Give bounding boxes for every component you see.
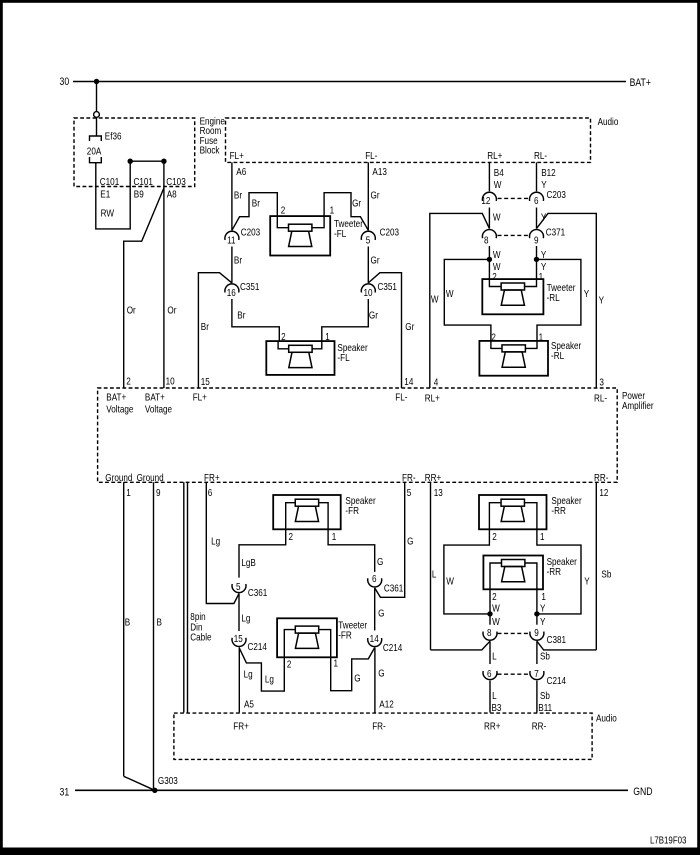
svg-text:8: 8 xyxy=(484,234,489,245)
svg-text:-RR: -RR xyxy=(547,566,562,577)
svg-text:FR+: FR+ xyxy=(233,720,249,731)
svg-text:Y: Y xyxy=(584,576,589,587)
svg-text:2: 2 xyxy=(492,271,497,282)
svg-text:Lg: Lg xyxy=(241,613,250,624)
svg-text:C371: C371 xyxy=(546,227,565,238)
svg-text:W: W xyxy=(493,249,501,260)
svg-text:B: B xyxy=(157,617,162,628)
svg-text:9: 9 xyxy=(534,627,539,638)
svg-text:1: 1 xyxy=(330,205,335,216)
svg-text:BAT+: BAT+ xyxy=(145,392,165,403)
svg-text:Y: Y xyxy=(540,616,545,627)
svg-text:L: L xyxy=(492,690,497,701)
svg-text:Br: Br xyxy=(252,198,260,209)
svg-text:1: 1 xyxy=(540,531,545,542)
svg-text:W: W xyxy=(431,294,439,305)
svg-text:RL+: RL+ xyxy=(487,150,502,161)
svg-text:1: 1 xyxy=(332,531,337,542)
svg-text:16: 16 xyxy=(227,287,236,298)
svg-text:W: W xyxy=(446,576,454,587)
svg-text:15: 15 xyxy=(234,633,243,644)
svg-text:Gr: Gr xyxy=(371,190,380,201)
svg-text:6: 6 xyxy=(208,487,213,498)
svg-text:Y: Y xyxy=(584,288,589,299)
svg-text:Audio: Audio xyxy=(596,713,617,724)
svg-text:Voltage: Voltage xyxy=(145,403,172,414)
svg-text:14: 14 xyxy=(370,633,379,644)
svg-text:LgB: LgB xyxy=(241,557,255,568)
svg-text:15: 15 xyxy=(201,376,210,387)
svg-text:-RL: -RL xyxy=(551,350,564,361)
svg-text:FR-: FR- xyxy=(402,472,416,483)
svg-text:2: 2 xyxy=(281,205,286,216)
svg-text:2: 2 xyxy=(492,531,497,542)
svg-text:BAT+: BAT+ xyxy=(630,77,652,89)
svg-text:B3: B3 xyxy=(492,702,502,713)
svg-text:L: L xyxy=(432,569,437,580)
svg-text:4: 4 xyxy=(434,377,439,388)
svg-text:C101: C101 xyxy=(134,176,153,187)
svg-text:C101: C101 xyxy=(100,176,119,187)
svg-text:Gr: Gr xyxy=(352,198,361,209)
svg-text:Voltage: Voltage xyxy=(106,403,133,414)
svg-text:C203: C203 xyxy=(547,189,566,200)
svg-text:31: 31 xyxy=(60,787,70,799)
svg-text:Sb: Sb xyxy=(540,690,550,701)
svg-text:FL-: FL- xyxy=(365,150,377,161)
svg-text:C203: C203 xyxy=(241,227,260,238)
svg-text:Y: Y xyxy=(541,249,546,260)
svg-text:Y: Y xyxy=(540,603,545,614)
svg-text:6: 6 xyxy=(487,668,492,679)
svg-text:W: W xyxy=(492,603,500,614)
svg-text:20A: 20A xyxy=(87,146,102,157)
svg-text:RR+: RR+ xyxy=(484,720,500,731)
svg-text:RL-: RL- xyxy=(534,150,547,161)
svg-text:2: 2 xyxy=(289,531,294,542)
svg-text:C214: C214 xyxy=(248,641,267,652)
svg-text:RR+: RR+ xyxy=(425,472,441,483)
svg-text:2: 2 xyxy=(287,659,292,670)
svg-text:Y: Y xyxy=(599,295,604,306)
svg-text:Ef36: Ef36 xyxy=(105,131,122,142)
svg-text:A12: A12 xyxy=(379,699,393,710)
svg-text:G: G xyxy=(378,668,384,679)
svg-text:9: 9 xyxy=(156,487,161,498)
svg-text:5: 5 xyxy=(236,581,241,592)
svg-text:FR-: FR- xyxy=(372,720,386,731)
svg-text:G: G xyxy=(407,536,413,547)
svg-text:RR-: RR- xyxy=(594,472,608,483)
svg-text:Lg: Lg xyxy=(244,669,253,680)
svg-text:Gr: Gr xyxy=(405,321,414,332)
svg-text:Cable: Cable xyxy=(190,632,211,643)
svg-text:W: W xyxy=(492,616,500,627)
svg-text:C203: C203 xyxy=(380,227,399,238)
svg-text:C214: C214 xyxy=(383,642,402,653)
svg-text:BAT+: BAT+ xyxy=(106,392,126,403)
svg-text:10: 10 xyxy=(166,376,175,387)
svg-text:L: L xyxy=(492,651,497,662)
svg-text:Ground: Ground xyxy=(105,472,132,483)
svg-text:Br: Br xyxy=(237,310,245,321)
svg-text:A8: A8 xyxy=(167,189,177,200)
svg-text:RL+: RL+ xyxy=(425,393,440,404)
svg-text:12: 12 xyxy=(599,487,608,498)
svg-text:A5: A5 xyxy=(244,699,254,710)
svg-text:W: W xyxy=(446,288,454,299)
svg-text:G: G xyxy=(378,608,384,619)
svg-text:6: 6 xyxy=(534,195,539,206)
svg-text:Gr: Gr xyxy=(371,255,380,266)
svg-text:6: 6 xyxy=(372,573,377,584)
svg-text:1: 1 xyxy=(539,271,544,282)
svg-text:11: 11 xyxy=(227,235,235,246)
svg-text:Lg: Lg xyxy=(211,536,220,547)
svg-text:Amplifier: Amplifier xyxy=(622,400,654,411)
svg-text:RW: RW xyxy=(101,208,115,219)
svg-text:3: 3 xyxy=(599,377,604,388)
svg-text:Gr: Gr xyxy=(369,310,378,321)
svg-text:2: 2 xyxy=(126,376,131,387)
svg-text:-FL: -FL xyxy=(334,228,346,239)
svg-text:FL+: FL+ xyxy=(230,150,244,161)
svg-text:Ground: Ground xyxy=(137,472,164,483)
svg-text:Block: Block xyxy=(200,145,220,156)
svg-text:C381: C381 xyxy=(547,634,566,645)
svg-text:Br: Br xyxy=(234,255,242,266)
svg-text:1: 1 xyxy=(541,591,546,602)
svg-text:E1: E1 xyxy=(100,189,110,200)
svg-text:-RL: -RL xyxy=(547,292,560,303)
svg-text:7: 7 xyxy=(534,668,539,679)
svg-text:10: 10 xyxy=(363,287,372,298)
svg-text:14: 14 xyxy=(404,376,413,387)
svg-text:2: 2 xyxy=(492,591,497,602)
svg-text:Audio: Audio xyxy=(598,116,619,127)
svg-text:Or: Or xyxy=(167,305,176,316)
svg-text:1: 1 xyxy=(334,658,339,669)
svg-text:B12: B12 xyxy=(541,167,555,178)
svg-text:C351: C351 xyxy=(378,281,397,292)
svg-text:Br: Br xyxy=(234,190,242,201)
svg-text:Br: Br xyxy=(201,321,209,332)
svg-text:W: W xyxy=(493,212,501,223)
svg-text:-FR: -FR xyxy=(338,630,352,641)
svg-text:A6: A6 xyxy=(236,166,246,177)
svg-text:W: W xyxy=(494,179,502,190)
svg-text:B: B xyxy=(125,617,130,628)
svg-text:B9: B9 xyxy=(134,189,144,200)
svg-text:30: 30 xyxy=(60,76,70,88)
svg-text:C361: C361 xyxy=(384,583,403,594)
svg-text:B4: B4 xyxy=(494,167,504,178)
svg-text:1: 1 xyxy=(126,487,131,498)
svg-text:C351: C351 xyxy=(240,281,259,292)
svg-text:Lg: Lg xyxy=(265,674,274,685)
svg-text:A13: A13 xyxy=(372,166,386,177)
svg-text:RR-: RR- xyxy=(532,720,546,731)
svg-text:5: 5 xyxy=(366,235,371,246)
svg-text:Sb: Sb xyxy=(601,569,611,580)
svg-text:G: G xyxy=(354,673,360,684)
svg-text:FR+: FR+ xyxy=(204,472,220,483)
svg-text:RL-: RL- xyxy=(594,393,607,404)
svg-text:8: 8 xyxy=(487,627,492,638)
svg-text:9: 9 xyxy=(534,234,539,245)
svg-text:GND: GND xyxy=(633,786,652,798)
svg-text:-FL: -FL xyxy=(337,352,349,363)
svg-text:-RR: -RR xyxy=(551,505,566,516)
svg-text:C214: C214 xyxy=(547,675,566,686)
svg-text:G303: G303 xyxy=(158,775,178,786)
svg-text:B11: B11 xyxy=(538,702,552,713)
svg-text:Sb: Sb xyxy=(540,651,550,662)
svg-text:-FR: -FR xyxy=(345,505,359,516)
svg-text:Or: Or xyxy=(127,305,136,316)
svg-text:5: 5 xyxy=(407,487,412,498)
svg-text:12: 12 xyxy=(481,195,490,206)
svg-text:FL+: FL+ xyxy=(193,392,207,403)
svg-text:C361: C361 xyxy=(248,587,267,598)
svg-text:C103: C103 xyxy=(166,176,185,187)
svg-text:G: G xyxy=(377,556,383,567)
svg-text:13: 13 xyxy=(434,487,443,498)
svg-text:L7B19F03: L7B19F03 xyxy=(650,835,686,846)
svg-text:FL-: FL- xyxy=(395,392,407,403)
